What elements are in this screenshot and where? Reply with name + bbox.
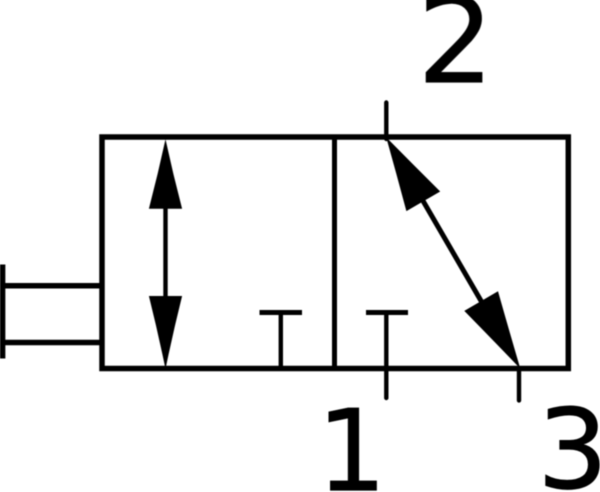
diagonal double-headed arrow (right position flow path 2-3) [386, 137, 520, 368]
port 2 stub (top) [384, 103, 388, 140]
port label 2 [426, 0, 482, 82]
valve body outline (two-position box) [102, 137, 568, 369]
port 1 stub + blocked port T (right position) [366, 313, 408, 399]
position divider line [332, 137, 337, 369]
port label 3 [546, 406, 600, 490]
blocked port T (left position) [260, 313, 303, 368]
port label 1 [329, 408, 377, 490]
vertical double-headed arrow (left position flow path) [149, 139, 182, 369]
actuator lower rail [0, 340, 104, 346]
push-button actuator end cap [0, 265, 5, 359]
port 3 stub (bottom right) [517, 369, 521, 401]
actuator upper rail [0, 283, 104, 289]
